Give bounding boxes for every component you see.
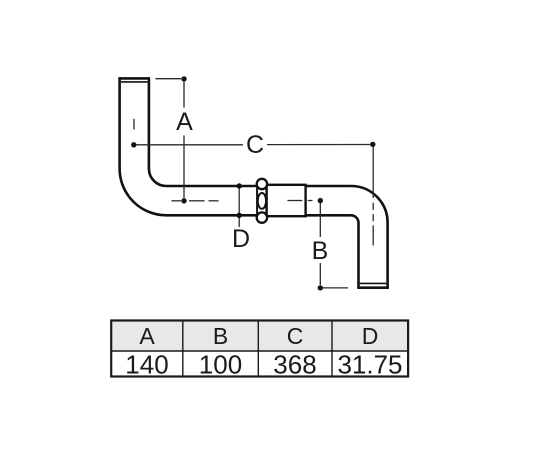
svg-text:C: C (246, 131, 264, 159)
svg-text:A: A (139, 323, 155, 349)
dim C point right (370, 142, 375, 147)
dim D point bottom (237, 213, 242, 218)
coupling ring right side line (266, 186, 268, 217)
svg-text:100: 100 (199, 350, 242, 380)
svg-text:140: 140 (125, 350, 168, 380)
dim B vertical line lower segment (319, 263, 321, 285)
right pipe centerline solid segment below C point (372, 147, 374, 198)
pipe left vertical outer edge + left elbow outer arc + lower horizontal edge (wire) (120, 77, 259, 215)
dim A vertical line lower segment (183, 136, 185, 199)
svg-text:368: 368 (273, 350, 316, 380)
coupling ring left side line (256, 186, 258, 217)
coupling ring bottom bead circle (257, 212, 267, 222)
pipe segment between coupling and right elbow, upper edge + right elbow outer arc + right vertical pipe right edge (306, 186, 388, 288)
right pipe bottom end cap outer line (357, 286, 389, 289)
table column divider B|C (257, 321, 259, 377)
svg-text:31.75: 31.75 (337, 350, 402, 380)
dim C line right segment (267, 144, 370, 146)
right pipe bottom end cap inner line (360, 282, 387, 284)
dim B bottom extension line (323, 287, 348, 289)
svg-text:D: D (362, 323, 379, 349)
horizontal pipe centerline dash 1 right of A point (189, 200, 205, 202)
pipe top end cap inner line (121, 81, 148, 83)
dim D point top (237, 183, 242, 188)
svg-text:B: B (213, 323, 228, 349)
dim D vertical line (238, 186, 240, 227)
svg-text:B: B (312, 237, 329, 265)
coupling ring middle ellipse (258, 193, 266, 209)
dim B point bottom (318, 285, 323, 290)
svg-text:C: C (287, 323, 304, 349)
pipe lower edge after coupling + right elbow inner arc + right vertical pipe left edge (306, 215, 359, 287)
table header background (112, 322, 407, 351)
table row divider (111, 350, 408, 352)
dim B point top (318, 198, 323, 203)
table column divider C|D (331, 321, 333, 377)
coupling ring top bead circle (257, 179, 267, 189)
dim B vertical line upper segment (319, 203, 321, 237)
right pipe centerline dash 2 (372, 214, 374, 221)
horizontal pipe centerline dash 1 left of B point (287, 200, 302, 202)
dim A point bottom (181, 198, 186, 203)
left pipe centerline dash above C point (133, 119, 135, 130)
horizontal pipe centerline dash 2 right of A point (209, 200, 219, 202)
pipe left vertical inner edge + left elbow inner arc + upper horizontal edge (wire) (149, 79, 258, 187)
table column divider A|B (182, 321, 184, 377)
dim A vertical line upper segment (183, 82, 185, 108)
dim A point top (181, 76, 186, 81)
horizontal pipe centerline solid segment left of A point (172, 200, 182, 202)
svg-text:A: A (176, 108, 193, 136)
dim C point left (131, 142, 136, 147)
svg-text:D: D (232, 225, 250, 253)
dim A extension line from pipe top (156, 78, 182, 80)
pipe top end cap outer line (118, 77, 150, 80)
horizontal pipe centerline dash 2 left of B point (308, 200, 313, 202)
right pipe centerline dash 1 (372, 203, 374, 210)
table outer border (111, 321, 408, 377)
right pipe centerline lower solid segment (372, 225, 374, 245)
coupling body rectangle (267, 185, 306, 216)
dim C line left segment (137, 144, 244, 146)
